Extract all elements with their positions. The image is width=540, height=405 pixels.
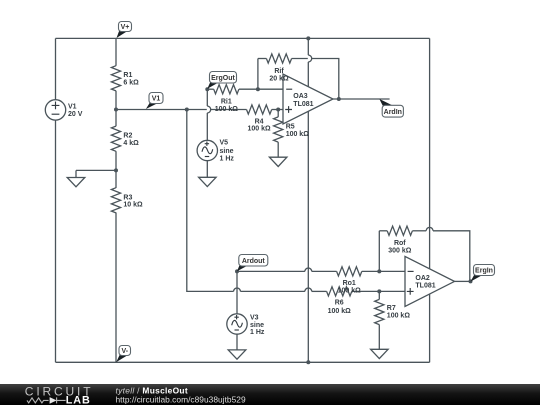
- svg-text:sine: sine: [250, 322, 264, 329]
- svg-text:20 kΩ: 20 kΩ: [269, 76, 289, 83]
- svg-text:R2: R2: [123, 133, 132, 140]
- svg-text:100 kΩ: 100 kΩ: [286, 131, 310, 138]
- svg-text:100 kΩ: 100 kΩ: [248, 126, 272, 133]
- svg-text:100 kΩ: 100 kΩ: [215, 106, 239, 113]
- svg-text:Ri1: Ri1: [221, 98, 232, 105]
- svg-text:Ardout: Ardout: [242, 258, 266, 265]
- svg-text:http://circuitlab.com/c89u38uj: http://circuitlab.com/c89u38ujtb529: [116, 395, 246, 405]
- svg-text:R6: R6: [335, 299, 344, 306]
- svg-text:TL081: TL081: [415, 283, 435, 290]
- svg-text:300 kΩ: 300 kΩ: [388, 248, 412, 255]
- svg-text:Ro1: Ro1: [343, 280, 356, 287]
- svg-text:100 kΩ: 100 kΩ: [387, 313, 411, 320]
- svg-text:V1: V1: [68, 103, 77, 110]
- svg-text:1 Hz: 1 Hz: [220, 155, 235, 162]
- svg-text:V3: V3: [250, 314, 259, 321]
- svg-text:V+: V+: [121, 24, 130, 31]
- svg-text:TL081: TL081: [293, 101, 313, 108]
- svg-text:LAB: LAB: [66, 394, 91, 405]
- svg-text:OA2: OA2: [415, 275, 430, 282]
- svg-text:ArdIn: ArdIn: [384, 109, 402, 116]
- svg-text:Rof: Rof: [394, 240, 406, 247]
- svg-text:V1: V1: [152, 96, 161, 103]
- svg-text:OA3: OA3: [293, 93, 308, 100]
- svg-text:V-: V-: [121, 348, 128, 355]
- svg-text:20 V: 20 V: [68, 111, 83, 118]
- svg-text:1 Hz: 1 Hz: [250, 329, 265, 336]
- svg-text:6 kΩ: 6 kΩ: [123, 80, 139, 87]
- svg-text:R4: R4: [255, 118, 264, 125]
- svg-text:R3: R3: [123, 194, 132, 201]
- svg-text:4 kΩ: 4 kΩ: [123, 140, 139, 147]
- svg-text:100 kΩ: 100 kΩ: [328, 308, 352, 315]
- svg-text:10 kΩ: 10 kΩ: [123, 202, 143, 209]
- svg-text:R1: R1: [123, 72, 132, 79]
- svg-text:100 kΩ: 100 kΩ: [338, 288, 362, 295]
- svg-text:R7: R7: [387, 305, 396, 312]
- svg-text:ErgIn: ErgIn: [475, 268, 493, 275]
- svg-text:sine: sine: [220, 148, 234, 155]
- svg-text:V5: V5: [220, 140, 229, 147]
- svg-text:R5: R5: [286, 124, 295, 131]
- svg-text:ErgOut: ErgOut: [211, 75, 235, 82]
- svg-text:Rif: Rif: [274, 68, 284, 75]
